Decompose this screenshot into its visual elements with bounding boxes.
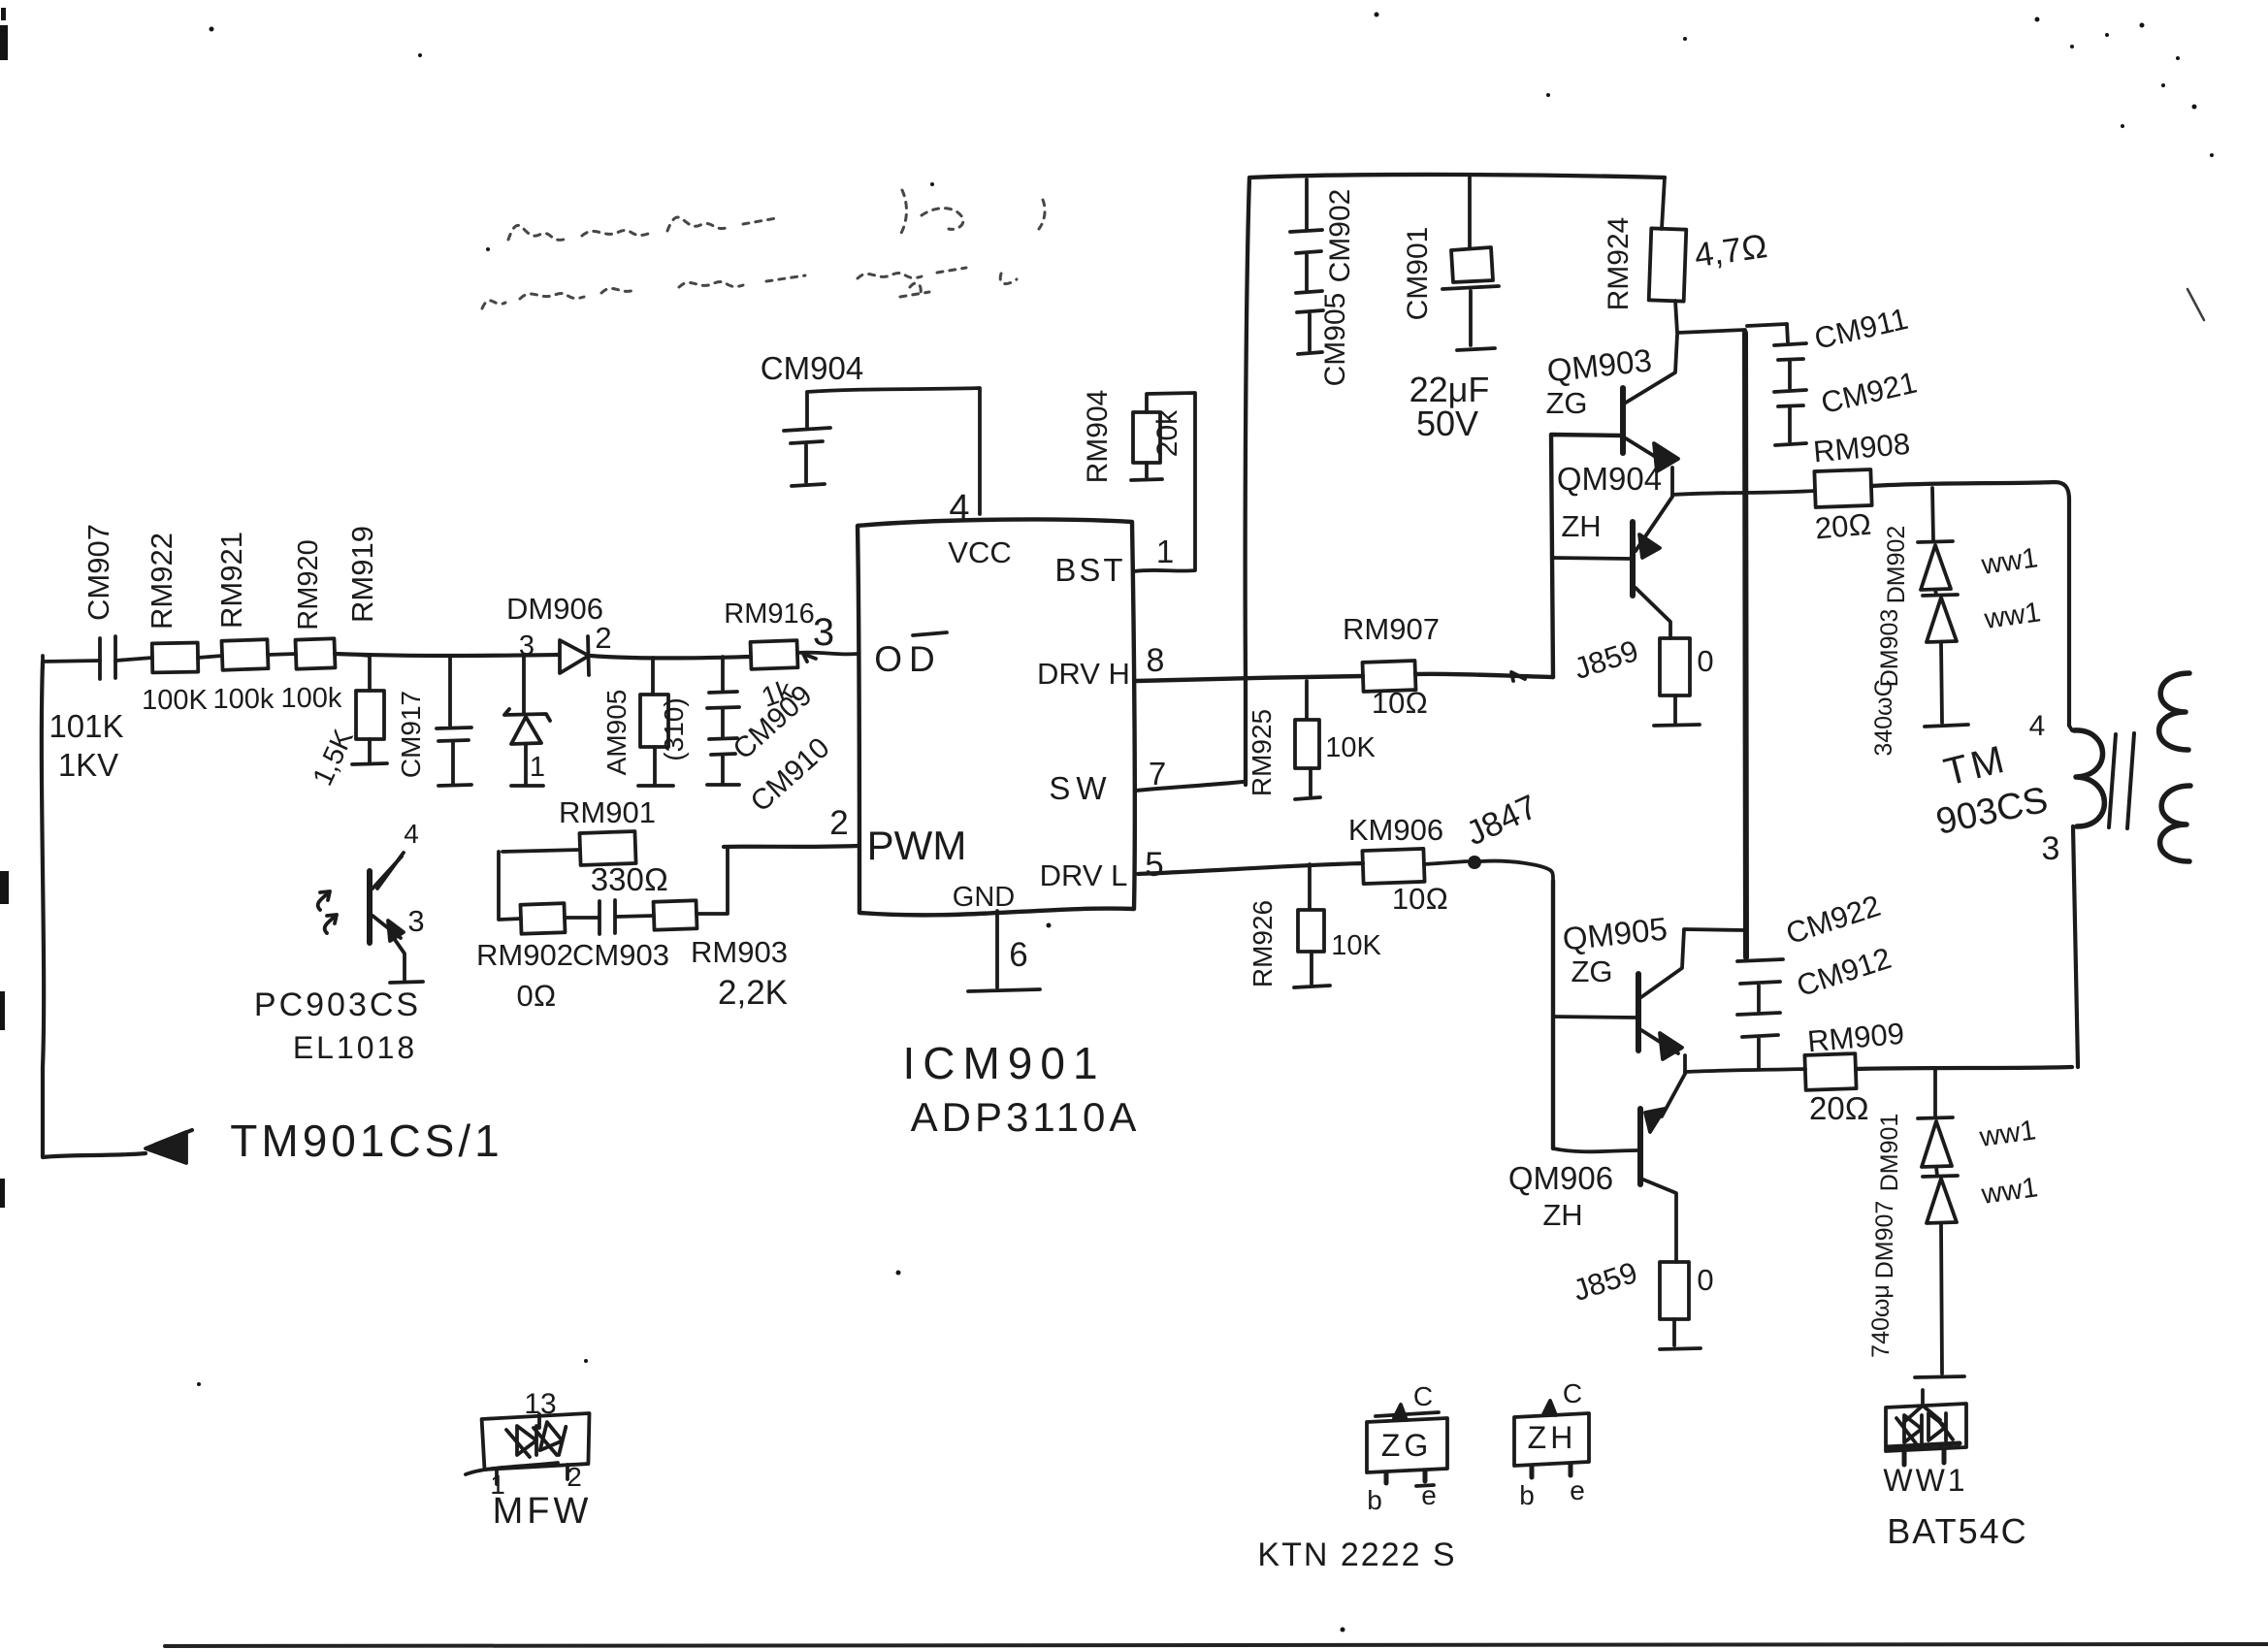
svg-text:100k: 100k: [281, 683, 342, 714]
svg-text:PC903CS: PC903CS: [254, 986, 421, 1023]
svg-text:ZG: ZG: [1545, 386, 1587, 420]
svg-text:20Ω: 20Ω: [1814, 507, 1873, 546]
svg-text:ICM901: ICM901: [902, 1038, 1105, 1088]
svg-text:J859: J859: [1569, 1255, 1641, 1308]
svg-text:20k: 20k: [1151, 409, 1183, 457]
svg-text:10K: 10K: [1325, 732, 1376, 763]
svg-text:RM904: RM904: [1082, 390, 1114, 484]
svg-text:RM922: RM922: [145, 533, 178, 630]
svg-text:BST: BST: [1054, 552, 1125, 588]
svg-text:ADP3110A: ADP3110A: [911, 1094, 1141, 1140]
svg-text:340ωC: 340ωC: [1870, 679, 1897, 756]
svg-text:TM: TM: [1940, 737, 2012, 794]
svg-text:CM901: CM901: [1402, 227, 1434, 321]
svg-text:RM926: RM926: [1247, 900, 1278, 987]
svg-text:3: 3: [519, 630, 535, 662]
svg-text:GND: GND: [953, 882, 1015, 913]
svg-text:0: 0: [1697, 1263, 1713, 1297]
svg-text:6: 6: [1009, 936, 1027, 974]
svg-text:CM904: CM904: [761, 350, 863, 386]
svg-text:PWM: PWM: [867, 823, 967, 868]
svg-text:RM902: RM902: [476, 938, 573, 972]
svg-text:BAT54C: BAT54C: [1887, 1511, 2027, 1551]
svg-text:10K: 10K: [1331, 930, 1381, 961]
svg-text:330Ω: 330Ω: [591, 861, 668, 897]
svg-text:ZH: ZH: [1542, 1198, 1582, 1232]
svg-text:ww1: ww1: [1979, 1172, 2040, 1211]
svg-text:J847: J847: [1461, 788, 1543, 853]
svg-text:DM907: DM907: [1871, 1201, 1898, 1279]
svg-text:ZG: ZG: [1381, 1428, 1432, 1463]
svg-text:(310): (310): [659, 697, 689, 760]
svg-text:1: 1: [530, 752, 545, 783]
svg-text:QM904: QM904: [1557, 461, 1662, 497]
svg-text:ZH: ZH: [1561, 509, 1601, 543]
svg-text:10Ω: 10Ω: [1392, 882, 1448, 916]
svg-text:QM905: QM905: [1561, 911, 1669, 957]
svg-text:0Ω: 0Ω: [516, 979, 556, 1013]
svg-text:TM901CS/1: TM901CS/1: [230, 1115, 502, 1166]
svg-text:b: b: [1519, 1480, 1535, 1510]
svg-text:4,7Ω: 4,7Ω: [1692, 227, 1769, 275]
svg-text:C: C: [1563, 1378, 1582, 1408]
svg-text:RM920: RM920: [293, 539, 324, 630]
svg-text:CM911: CM911: [1811, 302, 1911, 356]
svg-text:RM907: RM907: [1343, 612, 1440, 646]
svg-text:1KV: 1KV: [58, 747, 118, 783]
svg-text:1,5K: 1,5K: [308, 725, 360, 791]
svg-text:RM909: RM909: [1806, 1017, 1906, 1059]
svg-text:CM922: CM922: [1782, 889, 1885, 951]
svg-text:1: 1: [1156, 533, 1174, 569]
svg-text:DM902: DM902: [1883, 526, 1910, 604]
svg-text:5: 5: [1145, 846, 1163, 884]
svg-text:RM908: RM908: [1812, 427, 1912, 469]
svg-text:7: 7: [1149, 756, 1166, 792]
svg-text:DM901: DM901: [1876, 1114, 1903, 1192]
svg-text:AM905: AM905: [601, 690, 632, 776]
svg-text:2,2K: 2,2K: [718, 974, 788, 1012]
svg-text:4: 4: [949, 488, 969, 529]
svg-text:DM903: DM903: [1876, 609, 1903, 688]
svg-text:DRV H: DRV H: [1037, 657, 1130, 691]
svg-text:50V: 50V: [1416, 404, 1478, 443]
svg-text:100k: 100k: [213, 684, 275, 715]
svg-text:20Ω: 20Ω: [1809, 1090, 1869, 1126]
svg-text:MFW: MFW: [493, 1491, 593, 1532]
svg-text:ZH: ZH: [1528, 1420, 1577, 1455]
svg-text:QM903: QM903: [1545, 342, 1653, 389]
svg-text:101K: 101K: [49, 708, 123, 744]
svg-text:e: e: [1570, 1475, 1585, 1505]
svg-text:WW1: WW1: [1883, 1463, 1967, 1498]
svg-text:4: 4: [2029, 710, 2046, 742]
svg-text:CM905: CM905: [1319, 293, 1351, 387]
svg-text:EL1018: EL1018: [293, 1030, 417, 1065]
svg-text:VCC: VCC: [948, 535, 1011, 569]
svg-text:740ωμ: 740ωμ: [1867, 1284, 1895, 1358]
svg-text:CM902: CM902: [1324, 189, 1356, 283]
svg-text:CM921: CM921: [1818, 365, 1920, 420]
svg-text:ww1: ww1: [1979, 542, 2040, 581]
svg-text:2: 2: [595, 621, 611, 655]
svg-text:CM907: CM907: [81, 524, 115, 621]
svg-text:3: 3: [2042, 830, 2060, 867]
svg-text:RM919: RM919: [345, 526, 379, 623]
svg-text:CM903: CM903: [572, 938, 669, 972]
svg-text:0: 0: [1697, 644, 1713, 678]
svg-text:100K: 100K: [142, 685, 208, 716]
svg-text:RM916: RM916: [724, 598, 815, 630]
svg-text:CM917: CM917: [396, 691, 426, 778]
svg-text:10Ω: 10Ω: [1372, 686, 1428, 720]
svg-text:RM901: RM901: [559, 795, 656, 829]
svg-text:SW: SW: [1049, 770, 1112, 806]
svg-text:b: b: [1367, 1485, 1382, 1515]
svg-text:3: 3: [813, 611, 834, 654]
svg-text:C: C: [1413, 1381, 1433, 1411]
svg-text:RM903: RM903: [691, 935, 788, 969]
svg-text:ZG: ZG: [1571, 954, 1612, 988]
svg-text:QM906: QM906: [1508, 1160, 1613, 1196]
svg-text:J859: J859: [1570, 633, 1642, 686]
svg-text:ww1: ww1: [1977, 1115, 2038, 1153]
svg-text:RM925: RM925: [1247, 709, 1277, 796]
svg-text:RM924: RM924: [1603, 217, 1635, 311]
svg-text:KM906: KM906: [1348, 813, 1443, 847]
svg-text:2: 2: [829, 804, 848, 842]
svg-text:8: 8: [1147, 642, 1165, 679]
svg-text:DRV L: DRV L: [1040, 858, 1128, 892]
svg-text:ww1: ww1: [1982, 597, 2043, 635]
svg-text:KTN 2222 S: KTN 2222 S: [1257, 1536, 1456, 1573]
svg-text:CM912: CM912: [1793, 941, 1895, 1003]
svg-text:DM906: DM906: [506, 592, 603, 626]
svg-text:3: 3: [407, 904, 424, 938]
svg-text:OD: OD: [874, 639, 942, 679]
svg-text:4: 4: [404, 819, 419, 849]
svg-text:RM921: RM921: [214, 532, 248, 629]
